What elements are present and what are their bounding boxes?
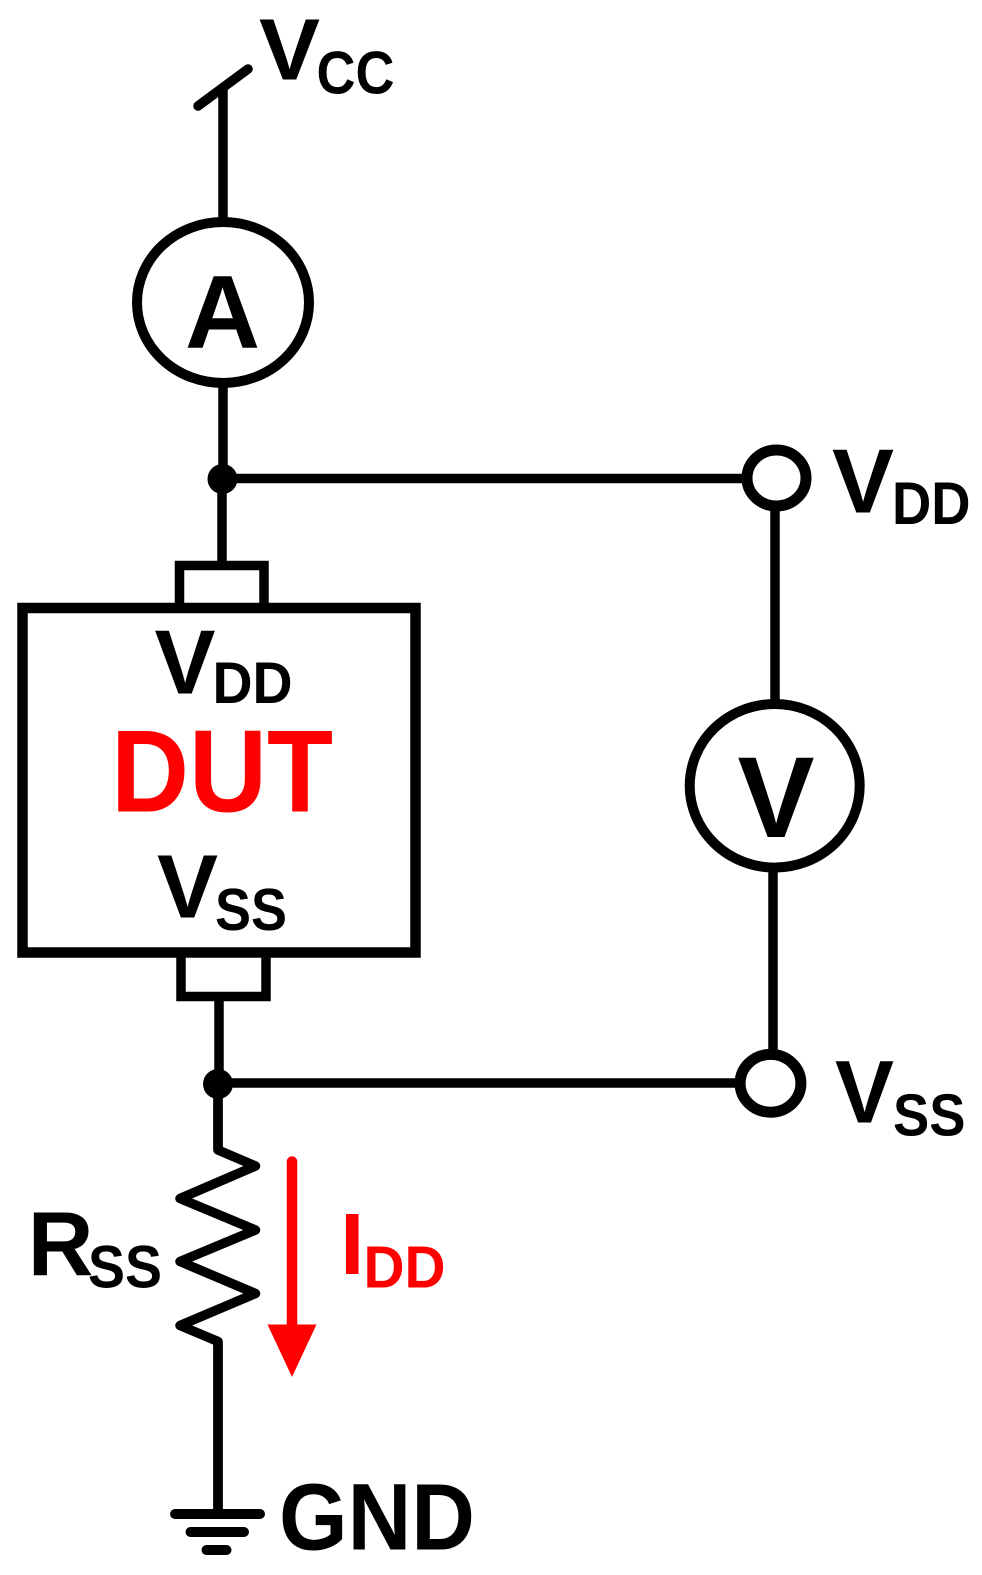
wire: voltmeter to VSS terminal — [768, 866, 778, 1052]
wire: DUT bottom pin to node 2 — [214, 996, 224, 1084]
wire: VCC terminal down to ammeter — [218, 86, 228, 222]
svg-text:SS: SS — [215, 876, 287, 943]
DUT bottom pin — [181, 953, 266, 997]
label IDD (red) — [346, 1214, 359, 1274]
svg-text:SS: SS — [88, 1234, 162, 1301]
wire: VDD terminal to voltmeter — [770, 509, 780, 706]
svg-text:DUT: DUT — [111, 706, 333, 837]
node 1 junction dot — [208, 464, 238, 494]
ammeter A1 circle — [137, 222, 309, 383]
wire: node 2 down to resistor — [213, 1084, 223, 1150]
svg-text:V: V — [259, 2, 320, 99]
wire: resistor to ground — [213, 1342, 223, 1515]
current arrow IDD (red) — [287, 1162, 298, 1331]
svg-text:R: R — [28, 1195, 94, 1296]
wire: node 2 to VSS terminal (horizontal) — [218, 1078, 741, 1088]
power terminal VCC (slash) — [198, 69, 248, 106]
node 2 junction dot — [203, 1069, 233, 1099]
DUT top pin — [180, 566, 265, 608]
svg-text:DD: DD — [364, 1234, 446, 1301]
wire: node 1 to DUT top pin — [217, 479, 227, 566]
svg-text:SS: SS — [893, 1082, 966, 1149]
wire: ammeter to node 1 — [218, 385, 228, 479]
DUT box — [23, 608, 416, 953]
resistor RSS zigzag — [180, 1084, 256, 1514]
terminal VSS open circle — [740, 1054, 801, 1112]
svg-text:A: A — [185, 255, 260, 371]
svg-text:V: V — [832, 432, 894, 533]
svg-text:GND: GND — [279, 1465, 475, 1571]
svg-text:V: V — [738, 734, 815, 862]
ground symbol — [175, 1509, 260, 1519]
svg-text:V: V — [157, 838, 218, 938]
svg-text:CC: CC — [317, 40, 395, 107]
svg-text:DD: DD — [892, 470, 971, 537]
terminal VDD open circle — [747, 450, 806, 506]
svg-text:V: V — [835, 1042, 894, 1142]
wire: node 1 to VDD terminal (horizontal) — [222, 474, 748, 484]
svg-text:V: V — [155, 613, 216, 714]
voltmeter V1 circle — [690, 704, 860, 868]
